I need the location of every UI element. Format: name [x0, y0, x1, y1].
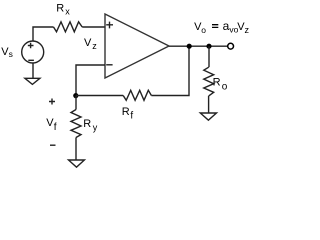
svg-text:f: f — [54, 122, 57, 133]
plus sign (Vf polarity) — [49, 99, 55, 105]
node B junction dot (feedback tap) — [187, 44, 192, 49]
svg-text:o: o — [201, 25, 206, 35]
wire: output node to Ro — [208, 46, 210, 67]
node C junction dot (Ro tap) — [206, 44, 211, 49]
voltage source VS — [22, 41, 44, 63]
label Vs — [1, 46, 13, 59]
wire: op-amp output — [169, 45, 228, 47]
output terminal (open circle) — [228, 43, 234, 49]
svg-text:x: x — [65, 6, 70, 16]
wire: node A to Ry — [75, 96, 77, 110]
wire: Ry to ground — [75, 138, 77, 161]
ground (below VS) — [25, 78, 40, 84]
wire: node A to Rf — [76, 95, 123, 97]
svg-text:y: y — [93, 122, 98, 132]
svg-text:z: z — [92, 41, 97, 51]
svg-text:o: o — [222, 82, 228, 93]
node label Vz — [84, 37, 97, 51]
wire: Ro to ground — [208, 96, 210, 113]
wire: inverting input run — [76, 65, 105, 96]
resistor Ro — [204, 67, 214, 96]
svg-text:V: V — [84, 37, 92, 49]
wire: VS bottom to ground — [32, 63, 34, 78]
resistor Ry — [71, 110, 81, 138]
node A junction dot — [73, 93, 78, 98]
svg-text:z: z — [245, 25, 250, 35]
resistor Rf — [123, 90, 151, 100]
wire: VS top corner to Rx — [33, 27, 54, 41]
svg-text:R: R — [122, 106, 130, 118]
ground (below Ro) — [200, 113, 216, 120]
resistor Rx — [54, 22, 83, 32]
label Rf — [122, 106, 134, 122]
label Vf — [46, 117, 57, 133]
label Ro — [213, 77, 228, 93]
svg-text:R: R — [213, 77, 221, 89]
svg-text:s: s — [9, 49, 13, 59]
label Rx — [56, 3, 70, 17]
minus sign (Vf polarity) — [50, 144, 56, 146]
svg-text:f: f — [130, 111, 133, 122]
label Vo = avoVz — [194, 19, 249, 35]
wire: Rf to output node — [151, 46, 189, 95]
op-amp U1 — [105, 14, 169, 78]
wire: Rx to op-amp + input — [82, 26, 105, 28]
label Ry — [83, 118, 98, 132]
svg-text:R: R — [83, 118, 91, 130]
ground (below Ry) — [69, 160, 85, 167]
svg-text:R: R — [56, 3, 64, 15]
